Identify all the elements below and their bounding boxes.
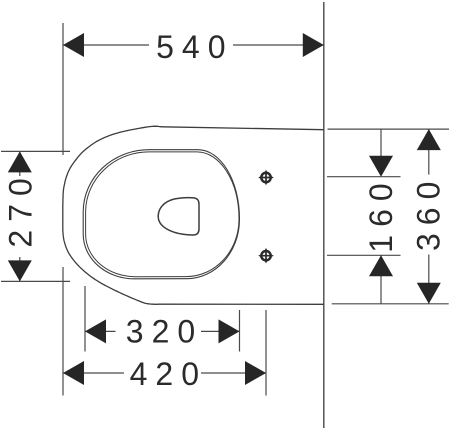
dim 270 line	[19, 151, 21, 281]
svg-text:360: 360	[411, 174, 447, 251]
wall line	[323, 2, 325, 428]
dim 270 label	[5, 176, 35, 257]
toilet rim inner contour	[86, 152, 239, 277]
dim 420 label	[124, 358, 201, 388]
extension line C (lower hole level)	[327, 254, 401, 256]
dim 420 line	[63, 372, 266, 374]
toilet outer outline	[63, 126, 324, 304]
dim 360 line	[428, 129, 430, 304]
svg-text:420: 420	[130, 356, 207, 392]
extension line D (toilet bottom edge, right of wall)	[332, 303, 449, 305]
dim 360 arrows	[417, 129, 441, 304]
svg-text:540: 540	[156, 29, 233, 65]
dim 320 line	[85, 330, 240, 332]
dim 160 leaders	[380, 129, 382, 304]
extension line A (toilet top edge, right of wall)	[328, 128, 450, 130]
dim 420 arrows	[63, 361, 266, 385]
drain blob	[158, 198, 199, 235]
dim 320 label	[116, 316, 202, 346]
svg-text:160: 160	[363, 175, 399, 252]
svg-text:320: 320	[126, 313, 203, 349]
dim 540 line	[63, 44, 324, 46]
extension line B (upper hole level)	[327, 176, 401, 178]
mounting hole H1	[258, 170, 274, 186]
dim 270 arrows	[8, 151, 32, 281]
dim 420 witness lines	[63, 267, 266, 396]
dim 160 arrows	[369, 156, 393, 277]
dim 360 label	[413, 175, 443, 255]
svg-text:270: 270	[3, 170, 39, 247]
mounting hole H2	[258, 248, 274, 264]
dim 320 witness lines	[85, 286, 240, 352]
dim 270 extension lines	[1, 151, 70, 281]
dim 540 label	[149, 30, 233, 60]
dim 540 witness line	[62, 23, 64, 155]
toilet rim outer contour	[83, 150, 239, 279]
dim 540 arrows	[63, 33, 324, 57]
dim 320 arrows	[85, 319, 240, 343]
